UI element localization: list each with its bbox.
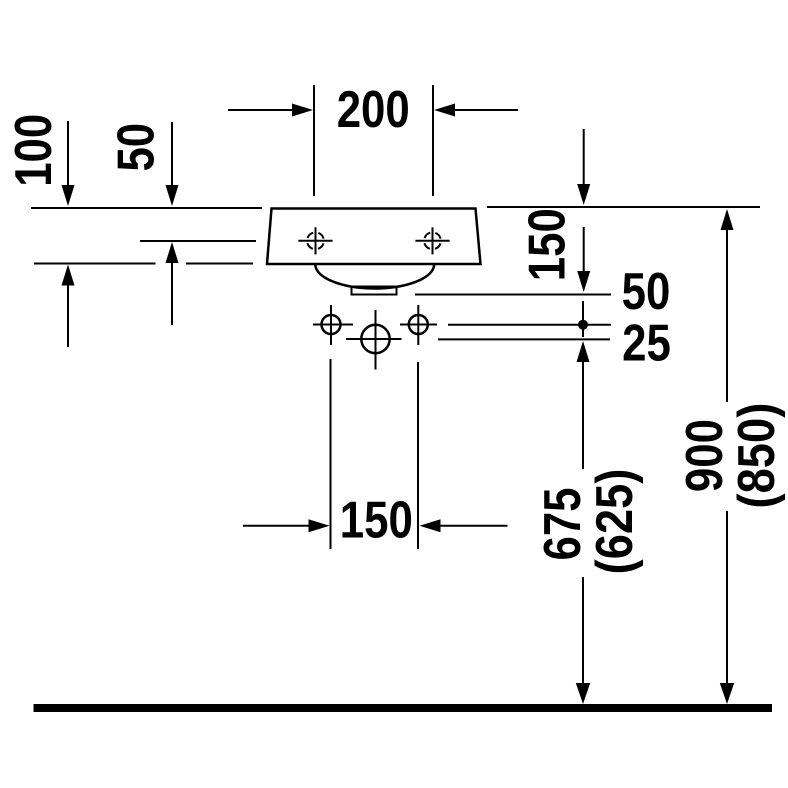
svg-text:50: 50 (622, 264, 671, 321)
svg-text:900: 900 (677, 419, 734, 492)
svg-text:675: 675 (535, 487, 592, 560)
svg-text:(625): (625) (587, 469, 644, 575)
svg-text:150: 150 (340, 492, 413, 549)
svg-text:100: 100 (6, 114, 63, 187)
svg-text:25: 25 (622, 315, 671, 372)
svg-text:50: 50 (108, 123, 165, 172)
svg-text:150: 150 (519, 208, 576, 281)
svg-text:200: 200 (337, 82, 410, 139)
svg-text:(850): (850) (729, 403, 786, 509)
